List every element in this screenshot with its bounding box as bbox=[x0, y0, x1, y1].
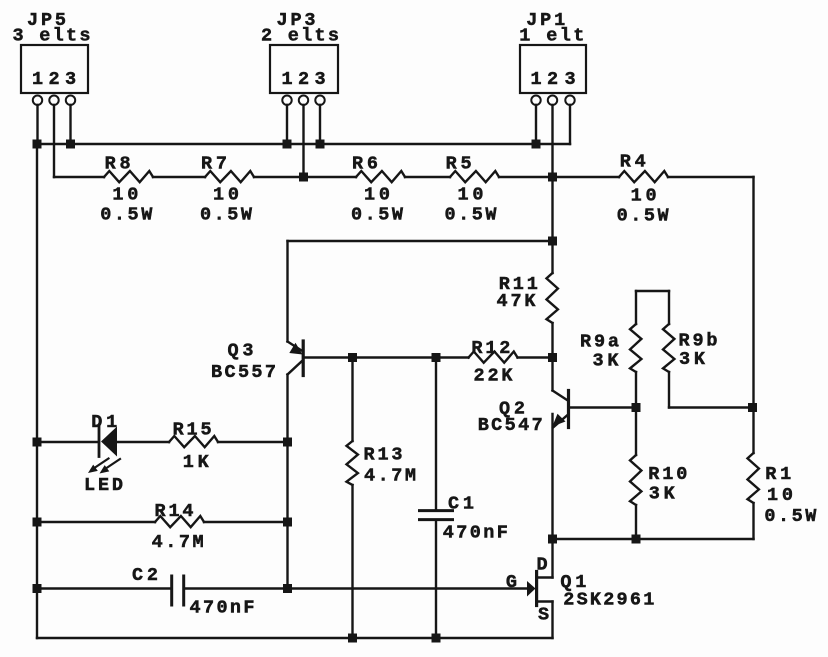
svg-text:0.5W: 0.5W bbox=[764, 506, 817, 527]
svg-text:R12: R12 bbox=[471, 338, 510, 359]
svg-text:R13: R13 bbox=[364, 445, 403, 466]
svg-text:BC557: BC557 bbox=[211, 362, 276, 383]
svg-text:0.5W: 0.5W bbox=[200, 204, 253, 225]
svg-text:2: 2 bbox=[547, 69, 558, 90]
svg-text:2: 2 bbox=[298, 69, 309, 90]
svg-text:R10: R10 bbox=[648, 464, 687, 485]
svg-text:1: 1 bbox=[281, 69, 292, 90]
svg-text:470nF: 470nF bbox=[190, 598, 255, 619]
svg-text:0.5W: 0.5W bbox=[351, 204, 404, 225]
svg-text:2SK2961: 2SK2961 bbox=[563, 589, 654, 610]
svg-text:3: 3 bbox=[564, 69, 575, 90]
svg-text:22K: 22K bbox=[474, 366, 514, 387]
svg-text:47K: 47K bbox=[497, 291, 537, 312]
svg-text:G: G bbox=[506, 572, 517, 593]
svg-text:3: 3 bbox=[65, 69, 76, 90]
svg-text:2: 2 bbox=[48, 69, 59, 90]
svg-text:D: D bbox=[536, 555, 547, 576]
svg-text:0.5W: 0.5W bbox=[100, 204, 153, 225]
svg-text:1: 1 bbox=[530, 69, 541, 90]
svg-text:R9a: R9a bbox=[580, 331, 619, 352]
svg-text:LED: LED bbox=[84, 475, 123, 496]
svg-text:3: 3 bbox=[314, 69, 325, 90]
svg-text:1: 1 bbox=[32, 69, 43, 90]
svg-text:S: S bbox=[538, 605, 549, 626]
svg-text:0.5W: 0.5W bbox=[445, 204, 498, 225]
svg-text:BC547: BC547 bbox=[478, 415, 543, 436]
svg-text:R14: R14 bbox=[155, 501, 194, 522]
svg-text:470nF: 470nF bbox=[443, 523, 508, 544]
svg-text:1 elt: 1 elt bbox=[519, 26, 584, 47]
svg-text:0.5W: 0.5W bbox=[617, 206, 670, 227]
svg-text:R15: R15 bbox=[173, 419, 212, 440]
